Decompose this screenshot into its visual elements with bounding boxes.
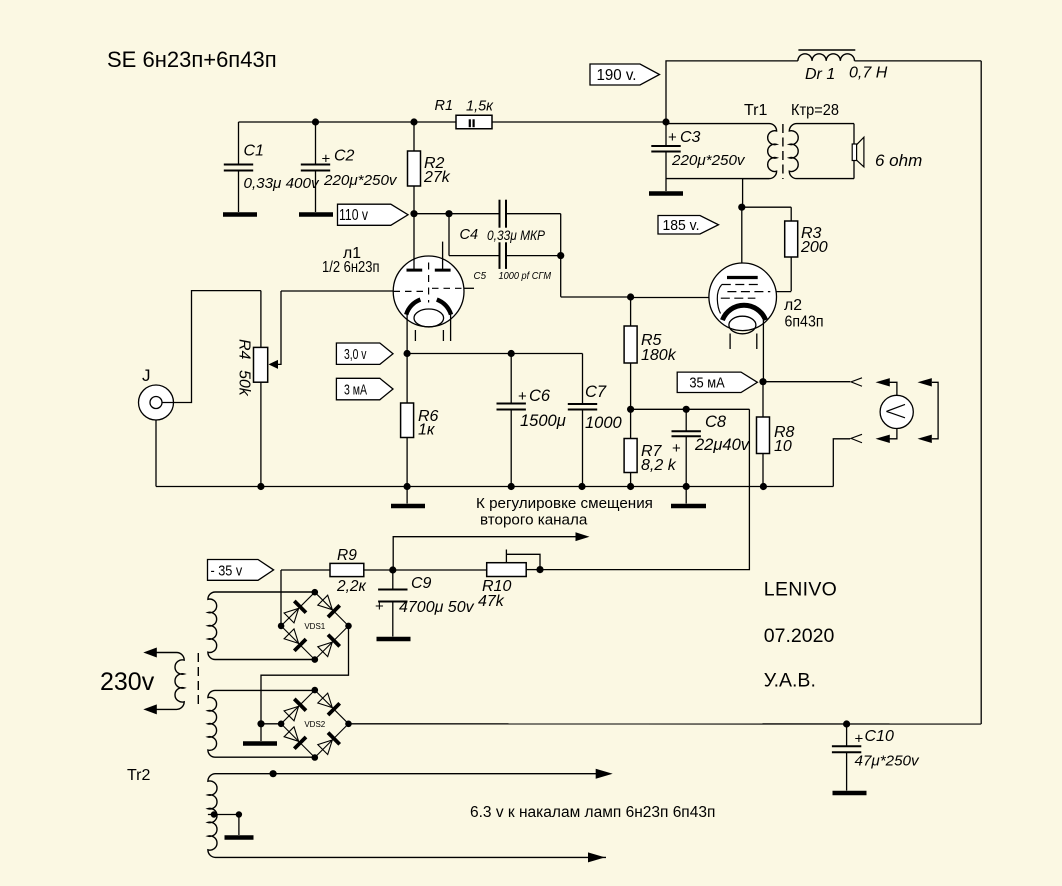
VDS2 diode L-B (284, 727, 299, 742)
wire R4 top lead (260, 291, 262, 348)
node dot heater lead (270, 770, 277, 777)
svg-text:C7: C7 (585, 383, 607, 401)
svg-text:22μ40v: 22μ40v (694, 436, 751, 454)
rectifier bridge VDS2 outline (281, 690, 348, 757)
svg-text:Tr2: Tr2 (127, 767, 151, 784)
capacitor C10 (47u 250v) (846, 724, 848, 746)
resistor R5 (180k) (630, 297, 632, 326)
node dot C10 (843, 720, 850, 727)
VDS2 corner junctions (312, 687, 319, 694)
node dot cathode L1 (404, 350, 411, 357)
wire branch down to VDS1 left (280, 570, 282, 626)
L2 beam plate bracket (717, 285, 722, 314)
VDS2 diode T-R (318, 693, 333, 708)
tube L2 envelope (709, 263, 777, 331)
svg-text:190 v.: 190 v. (597, 67, 637, 84)
L1 grid stub right (464, 287, 475, 289)
wire cathode row (407, 353, 582, 355)
svg-text:1к: 1к (418, 422, 436, 439)
wire bias node row (631, 408, 750, 410)
svg-text:C2: C2 (334, 148, 355, 165)
choke Dr1 winding (798, 54, 855, 61)
ground at C10 (833, 791, 867, 795)
wire -35v corner to R9 (281, 569, 330, 571)
ground at C9 (377, 637, 411, 641)
VDS2 diode B-R (318, 740, 333, 755)
meter bottom lead (884, 429, 897, 439)
wire choke to right rail (855, 60, 982, 62)
L1 anode bar right (435, 269, 451, 272)
node dot C8 top (683, 406, 690, 413)
flag 3 mA (336, 378, 393, 400)
L1 anode stub right half (442, 242, 444, 269)
svg-text:2,2к: 2,2к (336, 578, 367, 595)
svg-text:У.А.В.: У.А.В. (764, 669, 816, 691)
jack open contact bottom-left (851, 434, 862, 442)
node dot R9/C9 (389, 566, 396, 573)
svg-text:110 v: 110 v (339, 207, 368, 224)
node dot R1/R2 junction (410, 118, 417, 125)
right rail wire (980, 61, 982, 724)
L1 cathode lead (406, 314, 408, 354)
resistor R2 (27k) vertical (413, 122, 415, 151)
wire bias to second channel with arrow (393, 537, 586, 570)
jack plug arrow top-left (876, 378, 890, 386)
svg-text:R9: R9 (337, 547, 357, 564)
meter needle mark (886, 404, 905, 417)
L2 cathode arc (722, 305, 765, 320)
resistor R7 (8,2k) (630, 409, 632, 438)
svg-text:200: 200 (800, 239, 828, 256)
L2 grid dashes row2 (727, 291, 770, 293)
wire bias to channel1 grid network (540, 409, 749, 569)
resistor R6 (1k) (406, 354, 408, 404)
svg-text:3,0 v: 3,0 v (344, 346, 367, 363)
jack plug arrow bottom-left (876, 435, 890, 443)
svg-text:SE 6н23п+6п43п: SE 6н23п+6п43п (107, 47, 277, 72)
wire speaker bottom (853, 161, 855, 179)
L1 center dashed line (428, 263, 430, 303)
svg-text:1/2 6н23п: 1/2 6н23п (322, 259, 380, 276)
capacitor C6 (1500u) (510, 354, 512, 404)
svg-text:VDS1: VDS1 (304, 622, 325, 631)
ground at C1 (223, 212, 257, 216)
flag 110 v (338, 204, 409, 225)
wire Tr1 primary bottom to anode node (743, 179, 770, 208)
node dot C6 top (508, 350, 515, 357)
connector J (139, 385, 174, 420)
Tr2 winding secondary 2 (208, 690, 315, 757)
svg-text:27k: 27k (423, 169, 451, 186)
choke Dr1 core line (798, 49, 855, 51)
svg-text:- 35 v: - 35 v (211, 562, 243, 579)
svg-text:1000: 1000 (585, 414, 623, 432)
meter M circle (880, 395, 913, 428)
svg-text:1000 pf СГМ: 1000 pf СГМ (499, 271, 552, 282)
svg-text:220μ*250v: 220μ*250v (671, 152, 746, 169)
L2 cathode lead (762, 320, 764, 382)
tube L2 anode lead (741, 207, 743, 276)
wire R3 to screen grid (771, 291, 792, 293)
L1 anode bar left (407, 269, 423, 272)
Tr1 primary winding (666, 124, 777, 179)
node dot grid2/R5 (627, 293, 634, 300)
resistor R9 (2,2k) (330, 563, 364, 576)
wire J down (155, 420, 157, 487)
VDS2 diode L-T (284, 706, 299, 721)
R10 wiper (505, 550, 507, 563)
svg-text:+: + (668, 129, 677, 146)
wire secondary to speaker (853, 124, 855, 144)
capacitor C3 (electrolytic) (665, 122, 667, 146)
flag 185 v. (658, 216, 719, 235)
R1 power mark (469, 119, 471, 127)
L2 anode bar (727, 276, 758, 279)
svg-text:Ктр=28: Ктр=28 (791, 102, 839, 119)
jack open contact top-left (851, 378, 862, 386)
speaker (852, 144, 856, 161)
svg-text:0,33μ 400v: 0,33μ 400v (244, 175, 320, 192)
wire VDS1 plus to ground link (261, 626, 349, 724)
capacitor C8 (22u40v) (685, 409, 687, 431)
svg-text:1500μ: 1500μ (520, 412, 566, 430)
capacitor C7 (1000) (582, 354, 584, 405)
svg-text:47μ*250v: 47μ*250v (855, 753, 920, 770)
wire cathode to meter jack (763, 381, 850, 383)
svg-text:+: + (855, 731, 864, 748)
Tr2 winding secondary 1 (208, 592, 315, 660)
svg-text:C9: C9 (411, 575, 432, 592)
svg-text:второго канала: второго канала (480, 512, 588, 529)
jack shorting link arrow bottom (918, 435, 932, 443)
svg-text:6.3 v к накалам ламп 6н23п 6: 6.3 v к накалам ламп 6н23п 6п43п (470, 804, 715, 821)
rail node dots (257, 483, 264, 490)
ground at heater tap (225, 835, 254, 839)
svg-text:6п43п: 6п43п (785, 314, 824, 331)
svg-text:4700μ 50v: 4700μ 50v (399, 599, 475, 616)
Tr2 winding heater 6.3v (208, 774, 606, 858)
wire B+ riser (666, 61, 798, 122)
L2 heater (729, 316, 756, 334)
svg-text:Dr 1: Dr 1 (805, 66, 835, 83)
potentiometer R10 (47k) (487, 563, 527, 577)
capacitor C1 (238, 122, 240, 165)
wire R9 to node (364, 569, 393, 571)
wire R10 right (526, 569, 540, 571)
ground under C8 (685, 487, 687, 504)
svg-text:R4: R4 (236, 339, 253, 360)
svg-text:л2: л2 (784, 297, 802, 314)
node dot coupling branch (445, 210, 452, 217)
jack shorting link arrow top (918, 378, 932, 386)
svg-text:C4: C4 (460, 227, 479, 243)
capacitor C2 (electrolytic) (315, 122, 317, 165)
svg-text:LENIVO: LENIVO (764, 579, 837, 601)
node dot C2 top (312, 118, 319, 125)
L1 heater pin 1 (414, 330, 416, 341)
svg-text:47k: 47k (478, 593, 505, 610)
mains arrow top (143, 648, 157, 658)
svg-text:3 мА: 3 мА (344, 381, 367, 398)
node dot ground link (257, 720, 264, 727)
wire VDS2 output to B+ rail (349, 723, 982, 725)
svg-text:J: J (142, 366, 151, 385)
flag 35 mA (677, 372, 757, 392)
L1 grid dashes left (394, 290, 427, 292)
L1 heater (414, 309, 444, 327)
node dot R10 output (536, 566, 543, 573)
resistor R8 (10) (762, 382, 764, 417)
wire C4 right down to junction (560, 214, 562, 256)
flag 190 v. (590, 64, 660, 85)
L1 heater pin 2 (442, 330, 444, 341)
svg-text:07.2020: 07.2020 (764, 625, 835, 647)
svg-text:C6: C6 (529, 387, 551, 405)
svg-text:+: + (375, 598, 384, 615)
wire to R10 (393, 569, 487, 571)
svg-text:R1: R1 (435, 98, 454, 114)
L2 grid dashes row3 (721, 297, 756, 299)
svg-text:Tr1: Tr1 (744, 102, 768, 119)
L1 cathode arc left (406, 300, 420, 315)
capacitor C5 (1000pf) (448, 214, 450, 256)
node dot C4/C5 junction (557, 252, 564, 259)
heater bottom arrow (588, 852, 605, 862)
node dot 185v anode node (738, 204, 745, 211)
VDS1 diode B-R (318, 642, 333, 657)
svg-text:220μ*250v: 220μ*250v (323, 172, 398, 189)
svg-text:180k: 180k (641, 347, 677, 364)
wire anode node to R3 (742, 206, 791, 208)
wire B+ top-left rail y=122 (239, 121, 457, 123)
VDS1 diode L-B (284, 629, 299, 644)
svg-text:C1: C1 (244, 143, 264, 160)
R4 wiper (275, 291, 281, 364)
svg-text:50k: 50k (236, 370, 253, 397)
resistor R3 (200) (790, 207, 792, 221)
L1 cathode arc right (437, 300, 451, 315)
svg-text:1,5к: 1,5к (466, 99, 494, 115)
flag 3,0 v (336, 343, 393, 364)
svg-text:6 ohm: 6 ohm (875, 151, 922, 170)
capacitor C4 (0,33u MKP) (449, 213, 500, 215)
svg-text:C8: C8 (705, 413, 727, 431)
L1 cathode stub right half (450, 314, 452, 341)
svg-text:VDS2: VDS2 (304, 720, 325, 729)
L2 heater pin 2 (756, 334, 758, 350)
svg-text:C10: C10 (865, 728, 894, 745)
node dot B+ C3 (662, 118, 669, 125)
potentiometer R4 (50k) (254, 347, 268, 382)
ground at C2 (299, 212, 333, 216)
Tr2 core dashes (197, 653, 199, 708)
wire wiper to grid L1 (281, 290, 393, 292)
flag - 35 v (208, 560, 274, 581)
wire node to C4/C5 branch (414, 213, 449, 215)
wire jack to ground rail (833, 439, 850, 487)
svg-text:+: + (672, 440, 681, 457)
L2 heater pin 1 (729, 334, 731, 350)
L2 grid dashes row1 (722, 284, 761, 286)
Tr1 secondary winding (789, 124, 854, 179)
mains arrow bottom (143, 704, 157, 714)
node dot R5/R7 (627, 406, 634, 413)
Tr1 core dashes (782, 124, 784, 179)
wire coupling to grid of tube 2 (560, 256, 562, 297)
svg-text:0,33μ МКР: 0,33μ МКР (487, 227, 546, 243)
wire link to VDS2 left (261, 723, 281, 725)
svg-text:35 мА: 35 мА (689, 375, 724, 392)
heater top arrow (596, 769, 613, 779)
svg-text:C5: C5 (474, 271, 487, 282)
svg-text:К регулировке смещения: К регулировке смещения (476, 495, 653, 512)
wire R1 right to node 666 (492, 121, 666, 123)
svg-text:8,2 k: 8,2 k (641, 457, 677, 474)
svg-text:0,7 H: 0,7 H (849, 65, 888, 82)
svg-text:C3: C3 (680, 129, 701, 146)
svg-text:+: + (518, 388, 527, 405)
VDS1 diode T-R (318, 595, 333, 610)
wire R4 bottom to ground rail (260, 382, 262, 486)
ground symbol on rail (406, 487, 408, 504)
L1 grid dashes right (432, 287, 464, 289)
svg-text:+: + (322, 151, 331, 168)
ground at C3 (649, 191, 683, 195)
L1 anode lead (413, 214, 415, 269)
Tr2 primary winding (147, 653, 184, 710)
rectifier bridge VDS1 outline (281, 592, 348, 659)
wire J to R4 top (162, 291, 261, 403)
heater winding center tap (208, 814, 239, 816)
node dot 110v/R2/anode (410, 210, 417, 217)
VDS1 corner junctions (312, 589, 319, 596)
tube L1 envelope (393, 256, 464, 327)
VDS1 diode L-T (284, 608, 299, 623)
svg-text:10: 10 (774, 438, 792, 455)
resistor R1 (1,5k) horizontal (456, 115, 492, 129)
capacitor C9 (4700u) (392, 570, 394, 590)
ground rail wire (156, 486, 833, 488)
ground at VDS (260, 724, 262, 741)
node dot cathode L2 (759, 378, 766, 385)
svg-text:230v: 230v (100, 668, 155, 696)
svg-text:185 v.: 185 v. (663, 217, 700, 234)
